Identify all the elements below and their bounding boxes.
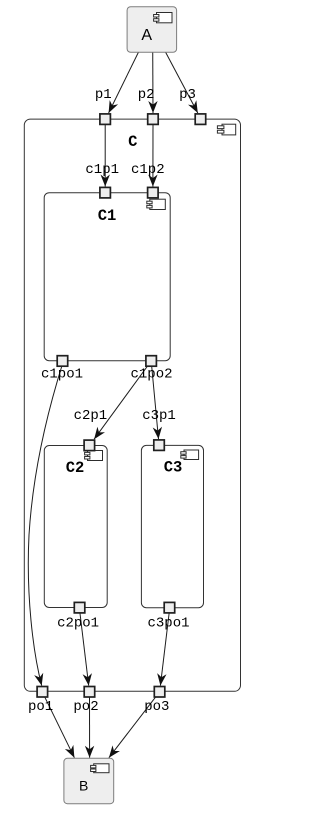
svg-text:B: B — [79, 778, 88, 794]
svg-text:c2po1: c2po1 — [57, 616, 99, 632]
svg-text:c3po1: c3po1 — [147, 616, 189, 632]
svg-text:p2: p2 — [138, 87, 155, 103]
svg-text:A: A — [141, 27, 152, 44]
svg-text:C1: C1 — [98, 207, 117, 225]
svg-text:c1po1: c1po1 — [41, 367, 83, 383]
svg-text:c1p1: c1p1 — [85, 162, 119, 178]
svg-text:C: C — [128, 133, 137, 151]
svg-text:C2: C2 — [66, 459, 85, 477]
svg-text:c1p2: c1p2 — [131, 162, 165, 178]
svg-text:C3: C3 — [164, 459, 183, 477]
svg-text:p3: p3 — [179, 87, 196, 103]
svg-text:po3: po3 — [144, 699, 169, 715]
svg-text:c3p1: c3p1 — [142, 408, 176, 424]
svg-text:po1: po1 — [28, 699, 53, 715]
svg-text:p1: p1 — [95, 87, 112, 103]
svg-text:po2: po2 — [73, 699, 98, 715]
svg-text:c1po2: c1po2 — [130, 367, 172, 383]
svg-text:c2p1: c2p1 — [74, 408, 108, 424]
